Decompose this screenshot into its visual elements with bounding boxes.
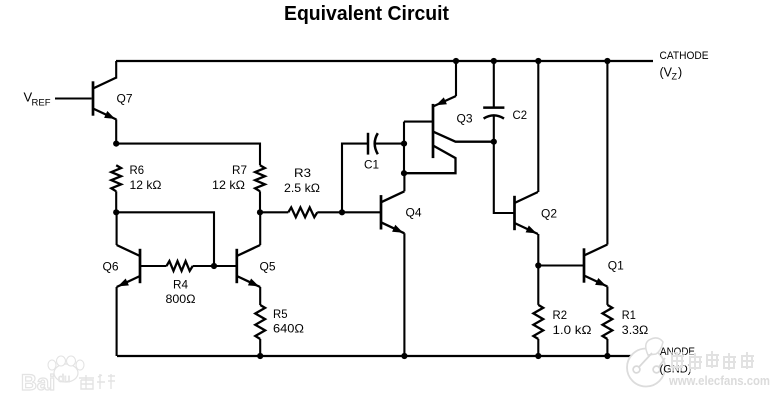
node R1 bottom junction (604, 353, 610, 359)
resistor R5 (255, 305, 304, 339)
label CATHODE (660, 50, 709, 62)
resistor R6 (111, 163, 161, 192)
svg-text:800Ω: 800Ω (166, 292, 196, 306)
svg-text:Q1: Q1 (608, 259, 624, 273)
node C2 bottom junction (491, 139, 497, 145)
title (284, 2, 449, 25)
wire C1 to node (374, 143, 404, 145)
wire R2 top (537, 266, 539, 305)
svg-text:1.0 kΩ: 1.0 kΩ (553, 323, 592, 337)
wire Q7 collector to top rail (115, 61, 117, 79)
wire node to Q5 base (214, 265, 237, 267)
svg-text:R2: R2 (553, 308, 568, 322)
svg-text:Q2: Q2 (541, 207, 557, 221)
node Q1 collector rail junction (604, 58, 610, 64)
wire R7 node to R3 (260, 211, 288, 213)
wire Q3 emitter to top rail (455, 61, 457, 96)
wire VREF to Q7 base (55, 97, 92, 99)
label (GND) (660, 364, 692, 376)
svg-text:Q4: Q4 (406, 206, 422, 220)
svg-text:Q7: Q7 (117, 92, 133, 106)
node Q7 emitter junction (113, 141, 119, 147)
node R6 bottom junction (113, 209, 119, 215)
label (VZ) (660, 66, 683, 82)
wire Q3 base node column (403, 122, 405, 174)
svg-text:Q5: Q5 (260, 260, 276, 274)
svg-text:12 kΩ: 12 kΩ (130, 178, 162, 192)
wire Q6 base to R4 (140, 265, 167, 267)
wire rail to C2 (493, 61, 495, 108)
svg-text:12 kΩ: 12 kΩ (212, 178, 245, 192)
transistor Q2 (515, 192, 558, 234)
wire Q1 collector to top rail (606, 61, 608, 245)
wire R6 node to R4 node column (116, 212, 214, 266)
wire Q7 emitter down (115, 119, 117, 143)
wire C1 branch up (342, 144, 368, 213)
svg-text:Z: Z (672, 72, 678, 82)
svg-text:3.3Ω: 3.3Ω (622, 323, 649, 337)
node C1 branch junction (339, 209, 345, 215)
svg-text:R5: R5 (273, 307, 288, 321)
svg-text:R3: R3 (294, 166, 311, 180)
node R2 bottom junction (535, 353, 541, 359)
svg-text:Equivalent Circuit: Equivalent Circuit (284, 2, 449, 25)
transistor Q4 (381, 191, 422, 233)
svg-text:R7: R7 (232, 163, 247, 177)
wire Q5 collector up to R7 node (259, 212, 261, 245)
svg-text:Bai: Bai (21, 370, 55, 395)
wire R7 bottom (259, 191, 261, 212)
resistor R7 (212, 163, 265, 192)
svg-text:640Ω: 640Ω (273, 322, 304, 336)
wire C2 to node (493, 116, 495, 142)
wire R3 to Q4 base (317, 211, 381, 213)
transistor Q6 (103, 245, 141, 287)
svg-text:2.5 kΩ: 2.5 kΩ (284, 181, 320, 195)
wire R5 bottom (259, 339, 261, 356)
wire R1 bottom (606, 339, 608, 356)
wire R6 bottom (115, 191, 117, 212)
svg-text:R1: R1 (622, 308, 636, 322)
resistor R4 (166, 261, 196, 306)
node C2 top rail junction (491, 58, 497, 64)
transistor Q5 (237, 245, 276, 287)
node Q4 emitter rail junction (401, 353, 407, 359)
resistor R3 (284, 166, 320, 217)
wire Q4 emitter to bottom rail (403, 233, 405, 356)
label ANODE (660, 346, 695, 358)
transistor Q7 (93, 78, 133, 120)
resistor R2 (533, 305, 591, 339)
capacitor C1 (364, 133, 379, 172)
svg-text:R6: R6 (130, 163, 145, 177)
watermark elecfans url (668, 374, 770, 388)
wire Q2 emitter to Q1 base (538, 264, 584, 266)
node Q3 emitter rail junction (453, 58, 459, 64)
wire R4 to node (193, 265, 214, 267)
wire node down to Q2 base (494, 142, 515, 213)
watermark Baidu Baike (21, 356, 115, 395)
svg-text:): ) (678, 66, 682, 80)
node Q3 collector feedback junction (401, 170, 407, 176)
label VREF (24, 90, 51, 109)
wire Q6 emitter to bottom rail (116, 287, 118, 356)
svg-text:R4: R4 (173, 278, 188, 292)
capacitor C2 (483, 108, 527, 122)
node Q2 emitter junction (535, 262, 541, 268)
svg-text:www.elecfans.com: www.elecfans.com (668, 374, 770, 388)
svg-text:C1: C1 (364, 158, 379, 172)
wire Q6 collector up to node (116, 212, 118, 245)
wire node to R7 top (116, 144, 260, 166)
svg-text:CATHODE: CATHODE (660, 50, 709, 62)
transistor Q3 (dual-collector PNP) (404, 96, 494, 173)
wire Q1 emitter to R1 (606, 287, 608, 305)
svg-text:C2: C2 (513, 108, 528, 122)
node Q3 base junction (401, 141, 407, 147)
node R4 right junction (211, 263, 217, 269)
wire R2 bottom (537, 339, 539, 356)
node Q2 collector rail junction (535, 58, 541, 64)
transistor Q1 (584, 245, 624, 287)
node R5 bottom junction (257, 353, 263, 359)
wire Q5 emitter to R5 (259, 287, 261, 305)
svg-text:Q3: Q3 (457, 112, 473, 126)
wire anode bottom rail (117, 355, 634, 357)
wire Q4 collector up to node (403, 173, 405, 191)
svg-text:Q6: Q6 (103, 260, 119, 274)
wire Q2 emitter down (537, 234, 539, 266)
svg-text:du: du (58, 373, 70, 385)
watermark elecfans logo circle (627, 338, 665, 387)
resistor R1 (603, 305, 649, 339)
svg-text:REF: REF (32, 98, 51, 109)
watermark elecfans chinese text (670, 351, 755, 372)
wire cathode top rail (116, 60, 653, 62)
node R7 bottom junction (257, 209, 263, 215)
wire Q2 collector to top rail (537, 61, 539, 192)
